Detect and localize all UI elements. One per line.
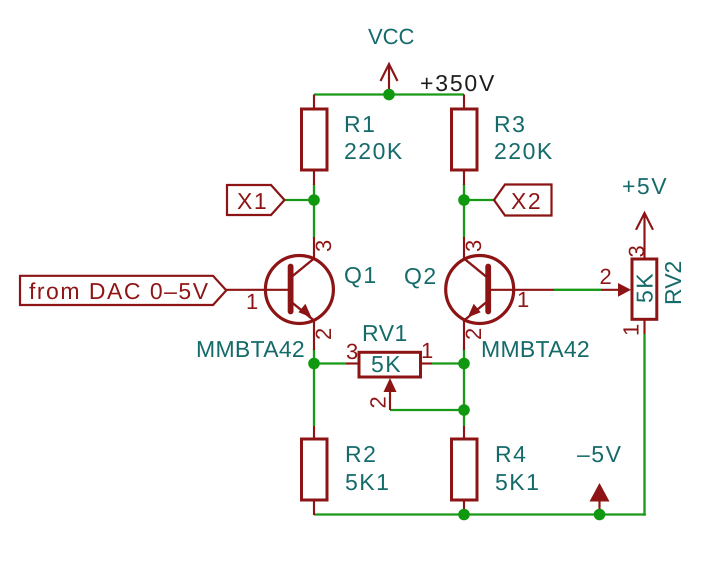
svg-text:+350V: +350V <box>420 70 496 96</box>
label RV1 value 5K <box>371 351 402 377</box>
resistor R3 <box>452 95 478 186</box>
svg-text:RV1: RV1 <box>362 320 408 346</box>
global label X2 <box>494 185 552 216</box>
svg-text:1: 1 <box>246 289 258 314</box>
wire right column upper <box>463 184 465 238</box>
junction -5V node <box>594 509 606 521</box>
junction Q1 emitter node <box>308 358 320 370</box>
wire RV2 pin1 down right column <box>643 334 645 516</box>
pin number 1 Q2 base <box>517 287 529 312</box>
svg-text:3: 3 <box>624 245 649 257</box>
resistor R1 <box>302 95 328 186</box>
svg-text:2: 2 <box>311 328 336 340</box>
wire left column lower <box>313 349 315 426</box>
label +5V <box>622 173 668 199</box>
label VCC <box>368 24 415 49</box>
pin number 1 Q1 base <box>246 289 258 314</box>
label +350V net <box>420 70 496 96</box>
power symbol -5V <box>590 483 610 515</box>
junction X1 node <box>308 194 320 206</box>
label Q1 reference <box>344 262 378 288</box>
svg-text:1: 1 <box>421 338 433 363</box>
global label from DAC 0-5V <box>20 276 226 305</box>
wire bottom bus <box>314 513 646 515</box>
svg-text:3: 3 <box>461 240 486 252</box>
junction R4 bottom node <box>458 509 470 521</box>
svg-text:220K: 220K <box>344 138 404 164</box>
svg-text:5K: 5K <box>371 351 402 377</box>
label Q2 value MMBTA42 <box>481 336 590 362</box>
svg-text:Q2: Q2 <box>404 263 438 289</box>
svg-text:2: 2 <box>366 396 391 408</box>
wire left column upper <box>313 184 315 238</box>
svg-text:1: 1 <box>517 287 529 312</box>
svg-text:R1: R1 <box>344 111 376 137</box>
potentiometer RV1 <box>346 352 432 410</box>
power symbol +5V <box>636 213 653 230</box>
label RV1 reference <box>362 320 408 346</box>
svg-text:MMBTA42: MMBTA42 <box>481 336 590 362</box>
svg-text:VCC: VCC <box>368 24 415 49</box>
transistor Q1 <box>226 237 333 350</box>
pin number 2 Q2 emitter <box>461 328 486 340</box>
svg-text:5K1: 5K1 <box>345 469 390 495</box>
pin number 1 RV2 <box>619 324 644 336</box>
label R4 reference <box>495 441 527 467</box>
label R2 reference <box>345 441 377 467</box>
label RV2 reference <box>660 261 686 305</box>
pin number 2 RV2 <box>600 264 612 289</box>
junction Q2 emitter node <box>458 358 470 370</box>
svg-text:from DAC 0–5V: from DAC 0–5V <box>29 278 210 304</box>
label R4 value 5K1 <box>495 469 540 495</box>
junction VCC node <box>383 89 395 101</box>
wire X2 to column <box>464 199 494 201</box>
label R3 reference <box>494 111 526 137</box>
global label X1 <box>227 185 285 215</box>
svg-text:R2: R2 <box>345 441 377 467</box>
svg-text:R4: R4 <box>495 441 527 467</box>
label R1 reference <box>344 111 376 137</box>
svg-text:1: 1 <box>619 324 644 336</box>
label Q2 reference <box>404 263 438 289</box>
svg-text:Q1: Q1 <box>344 262 378 288</box>
svg-text:5K1: 5K1 <box>495 469 540 495</box>
svg-text:220K: 220K <box>494 138 554 164</box>
potentiometer RV2 <box>601 213 657 334</box>
resistor R2 <box>302 426 328 515</box>
junction X2 node <box>458 194 470 206</box>
pin number 3 Q1 collector <box>311 240 336 252</box>
label R3 value 220K <box>494 138 554 164</box>
power symbol VCC <box>381 64 398 95</box>
svg-text:RV2: RV2 <box>660 261 686 305</box>
label Q1 value MMBTA42 <box>196 336 305 362</box>
svg-text:3: 3 <box>311 240 336 252</box>
svg-text:5K: 5K <box>632 272 658 303</box>
transistor Q2 <box>446 237 554 350</box>
wire X1 to column <box>284 199 314 201</box>
pin number 3 RV2 <box>624 245 649 257</box>
wire emitter Q1 to RV1 pin3 <box>314 362 346 364</box>
resistor R4 <box>452 426 478 515</box>
pin number 3 RV1 <box>346 339 358 364</box>
svg-text:–5V: –5V <box>577 441 622 467</box>
pin number 3 Q2 collector <box>461 240 486 252</box>
wire right column lower <box>463 349 465 426</box>
svg-text:X1: X1 <box>237 188 268 214</box>
svg-text:3: 3 <box>346 339 358 364</box>
svg-text:MMBTA42: MMBTA42 <box>196 336 305 362</box>
wire top bus <box>314 93 464 95</box>
wire RV1 wiper to right column <box>390 409 464 411</box>
svg-text:R3: R3 <box>494 111 526 137</box>
pin number 2 Q1 emitter <box>311 328 336 340</box>
label R2 value 5K1 <box>345 469 390 495</box>
svg-text:+5V: +5V <box>622 173 668 199</box>
pin number 2 RV1 <box>366 396 391 408</box>
svg-text:X2: X2 <box>511 188 542 214</box>
label R1 value 220K <box>344 138 404 164</box>
wire Q2 base to RV2 wiper <box>554 289 601 291</box>
label -5V <box>577 441 622 467</box>
junction RV1 wiper node <box>458 404 470 416</box>
pin number 1 RV1 <box>421 338 433 363</box>
svg-text:2: 2 <box>600 264 612 289</box>
wire RV1 pin1 to right column <box>432 362 464 364</box>
label RV2 value 5K <box>632 272 658 303</box>
